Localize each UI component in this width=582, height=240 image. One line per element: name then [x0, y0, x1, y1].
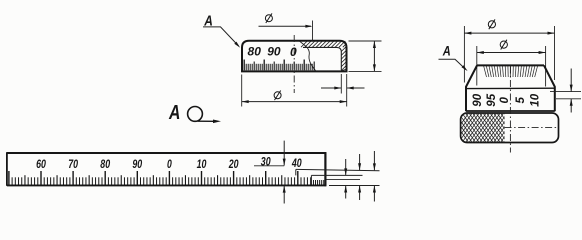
svg-text:70: 70	[68, 157, 78, 171]
svg-text:80: 80	[248, 44, 262, 58]
top diameter dimension of cap	[259, 13, 313, 40]
strip outline (developed stem scale)	[7, 152, 326, 186]
svg-text:10: 10	[530, 93, 542, 106]
extension line (strip bottom level)	[329, 185, 380, 187]
cap bottom outside diameter dimension	[242, 75, 347, 107]
svg-text:90: 90	[132, 157, 142, 171]
svg-text:90: 90	[267, 44, 281, 58]
svg-text:5: 5	[515, 97, 527, 104]
svg-text:30: 30	[261, 154, 271, 168]
thimble body outline	[466, 65, 555, 111]
svg-text:90: 90	[472, 93, 484, 106]
view direction symbol: letter A, circle, arrow	[168, 101, 221, 124]
label A with leader (cap)	[203, 14, 240, 48]
thimble scale diameter dimension	[477, 40, 546, 87]
svg-text:A: A	[442, 43, 451, 58]
small dimension 1 (tick band)	[344, 159, 347, 199]
thimble outer diameter dimension	[464, 19, 554, 82]
svg-text:A: A	[168, 101, 180, 124]
svg-text:95: 95	[486, 93, 498, 106]
thimble vertical centre line (dash-dot)	[509, 67, 511, 153]
cap inner cavity wall (section inner line)	[303, 47, 341, 70]
svg-text:0: 0	[290, 45, 297, 59]
svg-text:60: 60	[36, 157, 46, 171]
svg-text:20: 20	[228, 157, 239, 171]
cap body outline (sectioned thimble cap, top view figure)	[242, 41, 347, 72]
break line (wavy partial-section boundary)	[300, 41, 316, 70]
step line of thimble edge on strip (upper)	[296, 169, 380, 175]
thimble cone/body junction line	[466, 87, 555, 89]
cap height dimension (right side)	[349, 41, 382, 71]
label A with leader (thimble)	[439, 43, 468, 71]
cap scale numbers 80 90 0	[248, 44, 298, 58]
thimble body bottom edge	[466, 110, 555, 112]
svg-text:10: 10	[197, 157, 207, 171]
knurl horizontal centre line (dash-dot)	[505, 127, 557, 129]
cap wall thickness dimension	[321, 74, 365, 107]
thimble scale band height dimension (right)	[550, 69, 581, 113]
vernier tick marks at right end of strip	[311, 180, 325, 185]
strip numbers 60 70 80 90 0 10 20 30 40	[36, 154, 302, 170]
thimble bevel tick marks	[484, 66, 538, 77]
cap scale tick marks	[244, 60, 314, 71]
strip height dimension (at number 30)	[283, 141, 286, 204]
extension line under number 30	[254, 165, 284, 167]
cap centre line (dash-dot)	[293, 35, 295, 93]
svg-text:0: 0	[167, 157, 172, 171]
thimble scale numbers 90 95 0 5 10 (rotated)	[472, 93, 542, 106]
extension line (vernier tick top level)	[327, 178, 361, 180]
svg-text:80: 80	[100, 157, 110, 171]
small dimension 3	[373, 151, 376, 202]
step line of thimble edge on strip (lower)	[311, 175, 362, 180]
hatching of cap right wall	[341, 46, 346, 71]
svg-text:0: 0	[499, 97, 511, 104]
hatching of cap top wall	[301, 41, 346, 47]
strip tick marks	[9, 171, 311, 185]
knurled cap outline	[461, 113, 559, 143]
svg-text:40: 40	[291, 156, 302, 170]
small dimension 2	[358, 154, 361, 200]
